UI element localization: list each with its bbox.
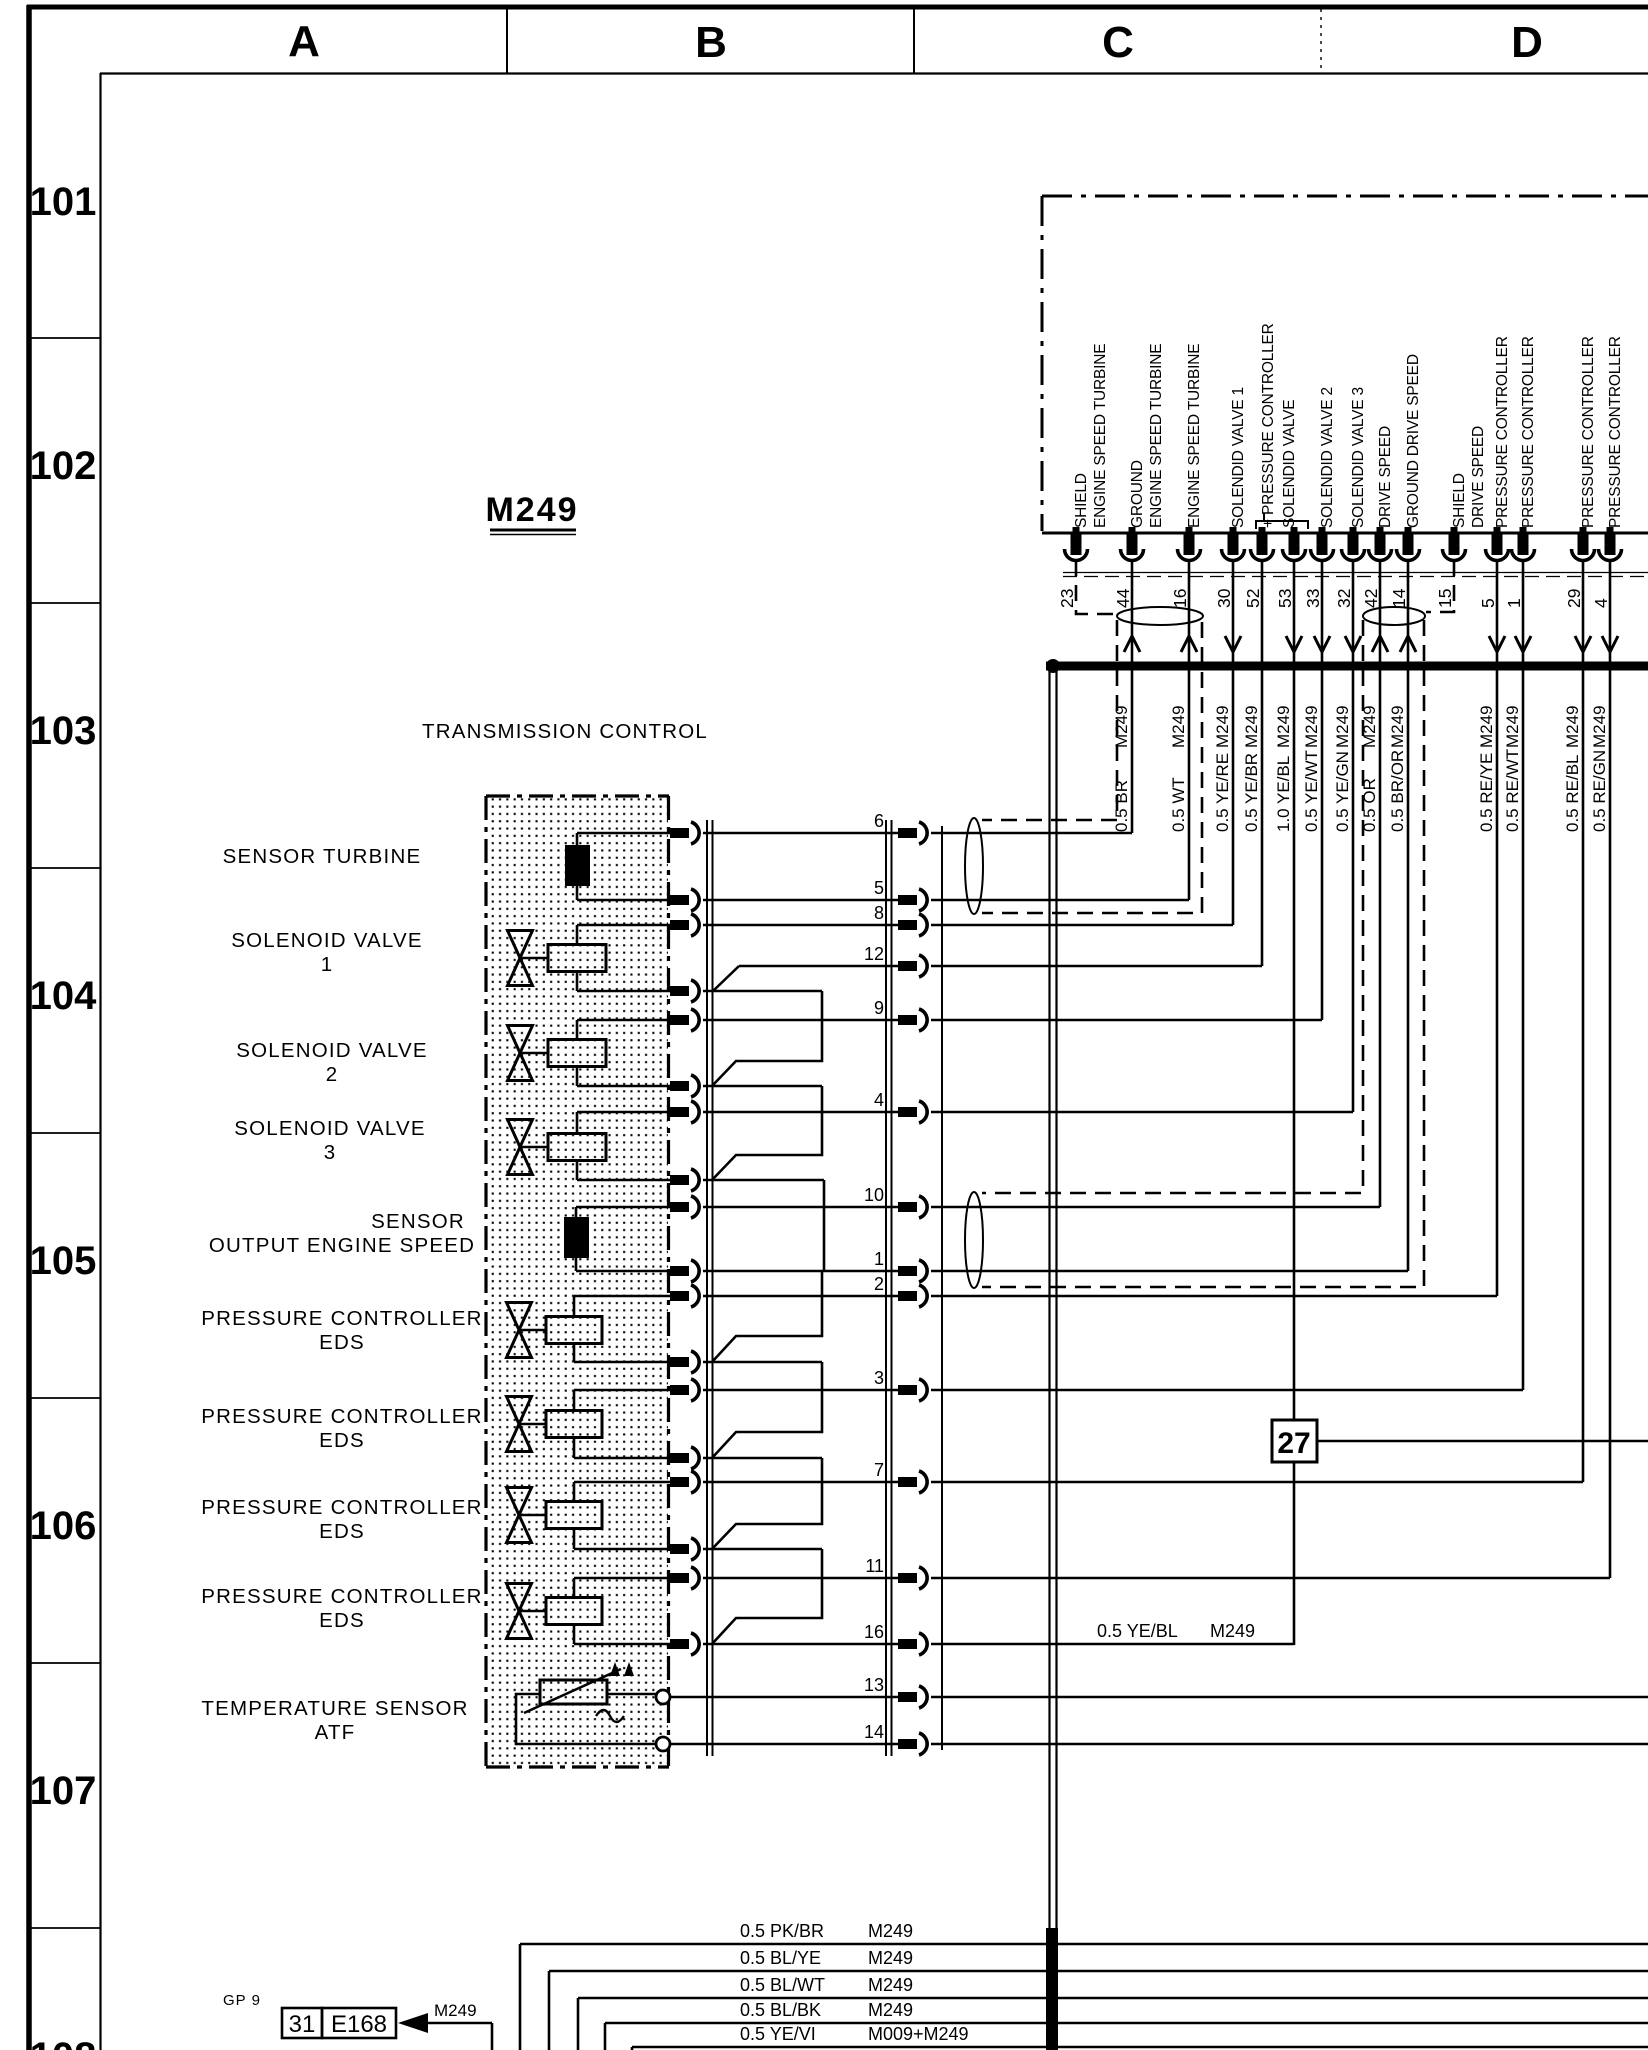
label SOLENOID VALVE 1 <box>231 929 423 976</box>
wire 0.5 RE/GN M249 from ECU pin x=1610 down to row y=1578 <box>1590 560 1618 1578</box>
wire 1.0 YE/BL M249 from ECU pin 53 down through box 27 to row 16 <box>1274 560 1302 1645</box>
pressure controller EDS 2 <box>507 1390 603 1458</box>
ECU pin 52 of M249 <box>1243 527 1274 608</box>
wire row 9 <box>703 1019 1322 1022</box>
svg-text:M249: M249 <box>1242 705 1261 748</box>
temperature sensor ATF (thermistor) <box>516 1662 656 1744</box>
row separator 106/107 <box>31 1662 100 1664</box>
connector X1 pin PC2a <box>670 1379 699 1401</box>
ECU pin 42 of M249 <box>1361 426 1394 608</box>
wire V1b to chain <box>703 990 822 993</box>
svg-text:11: 11 <box>865 1556 884 1576</box>
connector X1 pin ST- <box>670 889 699 911</box>
connector X2 pin 13 <box>864 1675 927 1708</box>
solenoid valve 2 <box>508 1020 607 1086</box>
svg-text:M249: M249 <box>868 1975 913 1995</box>
cable shield ellipse A at ECU side <box>1117 607 1203 625</box>
connector strip line below ECU pins <box>1063 572 1648 574</box>
wire 0.5 RE/YE M249 from ECU pin x=1497 down to row y=1296 <box>1477 560 1505 1296</box>
connector X1 pin PC3a <box>670 1471 699 1493</box>
sensor output engine speed (inductive sensor) <box>564 1207 589 1271</box>
svg-text:4: 4 <box>1591 598 1611 608</box>
wire 0.5 WT M249 from ECU pin x=1189 down to row y=900 <box>1169 560 1197 900</box>
connector X1 pin V3a <box>670 1101 699 1123</box>
svg-text:E168: E168 <box>331 2011 387 2038</box>
wire 0.5 YE/GN M249 from ECU pin x=1353 down to row y=1112 <box>1333 560 1361 1112</box>
row separator 101/102 <box>31 337 100 339</box>
splice box 27 <box>1272 1420 1317 1462</box>
svg-text:5: 5 <box>874 878 884 898</box>
wire 0.5 YE/BR M249 from ECU pin x=1262 down to row y=966 <box>1242 560 1262 966</box>
chain link PC2b-PC3b <box>712 1458 822 1549</box>
label TEMPERATURE SENSOR ATF <box>201 1697 468 1744</box>
svg-text:SOLENDID VALVE 2: SOLENDID VALVE 2 <box>1319 387 1336 528</box>
svg-text:53: 53 <box>1275 589 1295 608</box>
wire component to X1 at y=925 <box>577 924 670 927</box>
bracket joining pins 52 and 53 <box>1256 521 1308 529</box>
connector X2 pin 2 <box>874 1274 927 1307</box>
connector strip X2 double bar <box>886 820 892 1756</box>
svg-text:SHIELD: SHIELD <box>1451 473 1468 528</box>
junction dot bus / trunk <box>1046 659 1060 673</box>
svg-text:GROUND DRIVE SPEED: GROUND DRIVE SPEED <box>1405 354 1422 528</box>
svg-text:1: 1 <box>321 953 334 976</box>
wire component to X1 at y=1180 <box>577 1179 670 1182</box>
svg-text:PRESSURE CONTROLLER: PRESSURE CONTROLLER <box>201 1585 482 1608</box>
label SENSOR TURBINE <box>223 845 422 868</box>
svg-text:M249: M249 <box>1503 705 1522 748</box>
svg-text:D: D <box>1511 18 1543 67</box>
wire row 12 <box>739 965 1262 968</box>
wire 0.5 BL/BK M249 bottom <box>605 2000 1648 2050</box>
wire from box 27 to right edge <box>1317 1440 1648 1443</box>
wire component to X1 at y=900 <box>577 899 670 902</box>
connector strip X1 double bar <box>707 820 713 1756</box>
pressure controller EDS 4 <box>507 1578 603 1644</box>
wire 0.5 OR M249 from ECU pin x=1380 down to row y=1207 <box>1360 560 1388 1207</box>
label 0.5 YE/BL M249 on row 16 <box>1097 1621 1255 1641</box>
svg-text:M249: M249 <box>1169 705 1188 748</box>
chain link V1b-V2b <box>712 991 822 1086</box>
svg-text:DRIVE SPEED: DRIVE SPEED <box>1377 426 1394 528</box>
connector X2 pin 5 <box>874 878 927 911</box>
svg-text:9: 9 <box>874 998 884 1018</box>
label PRESSURE CONTROLLER EDS 3 <box>201 1496 482 1543</box>
svg-text:GROUND: GROUND <box>1129 460 1146 528</box>
wire component to X1 at y=833 <box>577 832 670 835</box>
wire row 10 <box>703 1206 1380 1209</box>
svg-text:1.0 YE/BL: 1.0 YE/BL <box>1274 756 1293 832</box>
control unit M249 box dash-dot top edge <box>1042 195 1648 198</box>
wire 0.5 BR/OR M249 from ECU pin x=1408 down to row y=1271 <box>1388 560 1416 1271</box>
svg-text:SOLENOID VALVE: SOLENOID VALVE <box>236 1039 428 1062</box>
transmission control unit dotted box fill <box>487 797 668 1767</box>
wire row 1 <box>703 1270 1408 1273</box>
svg-text:0.5 YE/GN: 0.5 YE/GN <box>1333 751 1352 832</box>
svg-text:30: 30 <box>1214 588 1234 608</box>
wire 0.5 PK/BR M249 bottom <box>520 1921 1648 2050</box>
svg-text:5: 5 <box>1478 598 1498 608</box>
svg-text:102: 102 <box>30 444 97 488</box>
svg-text:4: 4 <box>874 1090 884 1110</box>
wire PC1b to chain <box>703 1361 822 1364</box>
svg-text:0.5 WT: 0.5 WT <box>1169 777 1188 832</box>
wire V3b to chain <box>703 1179 824 1182</box>
wire component to X1 at y=1020 <box>577 1019 670 1022</box>
svg-text:1: 1 <box>874 1249 884 1269</box>
connector X1 pin V1b <box>670 980 699 1002</box>
ECU pin 33 of M249 <box>1303 387 1336 608</box>
svg-text:TRANSMISSION CONTROL: TRANSMISSION CONTROL <box>422 720 708 743</box>
svg-text:105: 105 <box>30 1239 97 1283</box>
svg-text:12: 12 <box>864 944 884 964</box>
control unit M249 box bottom pin line <box>1042 532 1648 535</box>
solenoid valve 3 <box>508 1112 607 1180</box>
harness trunk M249 thick lower section <box>1046 1928 1058 2050</box>
label SENSOR OUTPUT ENGINE SPEED <box>209 1210 475 1257</box>
svg-text:32: 32 <box>1334 589 1354 608</box>
svg-text:0.5 YE/VI: 0.5 YE/VI <box>740 2024 816 2044</box>
connector X1 pin SO- <box>670 1260 699 1282</box>
svg-text:29: 29 <box>1564 589 1584 608</box>
connector X1 pin SO+ <box>670 1196 699 1218</box>
wire row 7 <box>703 1481 1583 1484</box>
svg-text:EDS: EDS <box>319 1331 365 1354</box>
svg-text:SOLENDID VALVE 3: SOLENDID VALVE 3 <box>1350 387 1367 528</box>
wire PC2b to chain <box>703 1457 822 1460</box>
svg-text:0.5 YE/WT: 0.5 YE/WT <box>1302 750 1321 832</box>
wire component to X1 at y=1207 <box>576 1206 670 1209</box>
wire component to X1 at y=991 <box>577 990 670 993</box>
svg-text:M249: M249 <box>434 2001 477 2020</box>
wire 0.5 RE/WT M249 from ECU pin x=1523 down to row y=1390 <box>1503 560 1531 1390</box>
connector X1 pin V2a <box>670 1009 699 1031</box>
wire row 6 <box>703 832 1132 835</box>
svg-text:M249: M249 <box>868 1921 913 1941</box>
connector X2 pin 4 <box>874 1090 927 1123</box>
ECU pin 30 of M249 <box>1214 387 1247 608</box>
wire component to X1 at y=1362 <box>574 1361 670 1364</box>
wire row 16 <box>703 1643 1294 1646</box>
svg-text:A: A <box>288 17 320 66</box>
wire 0.5 YE/WT M249 from ECU pin x=1322 down to row y=1020 <box>1302 560 1330 1020</box>
svg-text:+ PRESSURE CONTROLLER: + PRESSURE CONTROLLER <box>1260 323 1277 528</box>
svg-text:TEMPERATURE SENSOR: TEMPERATURE SENSOR <box>201 1697 468 1720</box>
svg-text:52: 52 <box>1243 589 1263 608</box>
wire component to X1 at y=1458 <box>574 1457 670 1460</box>
wire 0.5 RE/BL M249 from ECU pin x=1583 down to row y=1482 <box>1563 560 1591 1482</box>
svg-text:101: 101 <box>30 180 97 224</box>
svg-text:ENGINE SPEED TURBINE: ENGINE SPEED TURBINE <box>1092 344 1109 528</box>
wire component to X1 at y=1390 <box>574 1389 670 1392</box>
svg-text:27: 27 <box>1277 1427 1310 1460</box>
cable shield ellipse B at ECU side <box>1363 607 1425 625</box>
svg-text:M249: M249 <box>1477 705 1496 748</box>
ground point box 31 E168 <box>282 2008 396 2038</box>
shield rail B right (dashed) <box>982 620 1424 1287</box>
wire row 4 <box>703 1111 1353 1114</box>
svg-text:0.5 YE/BR: 0.5 YE/BR <box>1242 753 1261 832</box>
svg-text:103: 103 <box>30 709 97 753</box>
ECU pin 16 of M249 <box>1170 344 1203 608</box>
wire component to X1 at y=1271 <box>576 1270 670 1273</box>
transmission control unit box dash-dot border <box>486 796 669 1768</box>
ECU pin 32 of M249 <box>1334 387 1367 608</box>
wire 0.5 YE/VI M009+M249 bottom <box>632 2024 1648 2050</box>
connector X2 pin 1 <box>874 1249 927 1282</box>
svg-text:ENGINE SPEED TURBINE: ENGINE SPEED TURBINE <box>1148 344 1165 528</box>
column separator C/D <box>1320 9 1322 73</box>
svg-text:M249: M249 <box>1213 705 1232 748</box>
connector X1 pin PC1b <box>670 1351 699 1373</box>
wire 0.5 YE/RE M249 from ECU pin x=1233 down to row y=925 <box>1213 560 1241 925</box>
svg-text:42: 42 <box>1361 589 1381 608</box>
solenoid valve 1 <box>508 925 607 991</box>
sensor turbine (inductive sensor) <box>565 833 590 900</box>
chain link V2b-V3b <box>712 1086 822 1180</box>
connector X1 pin PC2b <box>670 1447 699 1469</box>
shield rail A left (dashed) <box>982 620 1117 820</box>
svg-text:SHIELD: SHIELD <box>1073 473 1090 528</box>
wire 0.5 BL/WT M249 bottom <box>578 1975 1648 2050</box>
svg-text:14: 14 <box>1389 588 1409 608</box>
connector strip X2 right bar <box>941 826 943 1750</box>
connector X2 pin 3 <box>874 1368 927 1401</box>
wire row 11 <box>703 1577 1610 1580</box>
svg-text:PRESSURE CONTROLLER: PRESSURE CONTROLLER <box>201 1405 482 1428</box>
wire row 2 <box>703 1295 1497 1298</box>
cable shield ellipse B at component side <box>965 1192 983 1288</box>
svg-text:0.5 BR: 0.5 BR <box>1112 780 1131 832</box>
title M249 <box>485 491 578 535</box>
svg-text:M249: M249 <box>1590 705 1609 748</box>
wire component to X1 at y=1112 <box>577 1111 670 1114</box>
svg-text:OUTPUT ENGINE SPEED: OUTPUT ENGINE SPEED <box>209 1234 475 1257</box>
svg-text:1: 1 <box>1504 598 1524 608</box>
wire PC3b to chain <box>703 1548 822 1551</box>
svg-text:PRESSURE CONTROLLER: PRESSURE CONTROLLER <box>1520 336 1537 528</box>
ECU pin 44 of M249 <box>1113 344 1165 608</box>
svg-text:M249: M249 <box>1302 705 1321 748</box>
wire component to X1 at y=1549 <box>574 1548 670 1551</box>
svg-text:44: 44 <box>1113 588 1133 608</box>
label PRESSURE CONTROLLER EDS 4 <box>201 1585 482 1632</box>
svg-text:0.5 BL/WT: 0.5 BL/WT <box>740 1975 825 1995</box>
svg-text:M249: M249 <box>485 491 578 529</box>
diagonal V1b to row 12 <box>713 966 739 991</box>
harness trunk M249 double line <box>1050 666 1057 1930</box>
svg-text:PRESSURE CONTROLLER: PRESSURE CONTROLLER <box>1580 336 1597 528</box>
cable shield ellipse A at component side <box>965 818 983 914</box>
connector X1 pin V2b <box>670 1075 699 1097</box>
svg-text:0.5 RE/YE: 0.5 RE/YE <box>1477 753 1496 832</box>
svg-text:M249: M249 <box>1274 705 1293 748</box>
connector X1 pin V1a <box>670 914 699 936</box>
connector X1 pin V3b <box>670 1169 699 1191</box>
ECU pin 14 of M249 <box>1389 354 1422 608</box>
wire component to X1 at y=1644 <box>574 1643 670 1646</box>
wire row 14 <box>670 1743 1648 1746</box>
label SOLENOID VALVE 2 <box>236 1039 428 1086</box>
connector X1 pin ST+ <box>670 822 699 844</box>
svg-text:DRIVE SPEED: DRIVE SPEED <box>1470 426 1487 528</box>
wire row 5 <box>703 899 1189 902</box>
column separator A/B <box>506 9 508 73</box>
row separator 107/108 <box>31 1927 100 1929</box>
svg-text:SENSOR TURBINE: SENSOR TURBINE <box>223 845 422 868</box>
connector X2 pin 6 <box>874 811 927 844</box>
control unit M249 box dash-dot left edge <box>1041 196 1044 531</box>
chain link row1-PC1b <box>712 1271 822 1362</box>
temperature sensor terminal circle 13 <box>656 1690 670 1704</box>
wire component to X1 at y=1578 <box>574 1577 670 1580</box>
svg-text:108: 108 <box>30 2035 97 2050</box>
svg-text:106: 106 <box>30 1504 97 1548</box>
connector X2 pin 16 <box>864 1622 927 1655</box>
svg-text:0.5 RE/GN: 0.5 RE/GN <box>1590 750 1609 832</box>
connector X2 pin 7 <box>874 1460 927 1493</box>
connector X1 pin PC4b <box>670 1633 699 1655</box>
svg-text:8: 8 <box>874 903 884 923</box>
shield rail B left (dashed) <box>982 620 1363 1193</box>
svg-text:0.5 YE/RE: 0.5 YE/RE <box>1213 753 1232 832</box>
ECU pin 23 of M249 <box>1057 344 1109 608</box>
row separator 103/104 <box>31 867 100 869</box>
wire M249 to ground point E168 with arrow <box>398 2001 492 2050</box>
svg-text:PRESSURE CONTROLLER: PRESSURE CONTROLLER <box>1607 336 1624 528</box>
ECU pin 1 of M249 <box>1504 336 1537 608</box>
ECU pin 53 of M249 <box>1275 527 1306 608</box>
shield wire ECU pin 15 dash elbow <box>1426 560 1454 612</box>
svg-text:33: 33 <box>1303 589 1323 608</box>
svg-text:M249: M249 <box>1210 1621 1255 1641</box>
temperature sensor terminal circle 14 <box>656 1737 670 1751</box>
svg-text:0.5 BR/OR: 0.5 BR/OR <box>1388 750 1407 832</box>
connector X2 pin 10 <box>864 1185 927 1218</box>
svg-text:16: 16 <box>864 1622 884 1642</box>
svg-text:0.5 BL/YE: 0.5 BL/YE <box>740 1948 821 1968</box>
wire component to X1 at y=1086 <box>577 1085 670 1088</box>
svg-text:SOLENOID VALVE: SOLENOID VALVE <box>231 929 423 952</box>
shield wire ECU pin 23 dash elbow <box>1076 560 1115 614</box>
svg-text:C: C <box>1102 18 1134 67</box>
svg-text:GP 9: GP 9 <box>223 1992 261 2009</box>
wire row 8 <box>703 924 1233 927</box>
svg-text:10: 10 <box>864 1185 884 1205</box>
svg-text:EDS: EDS <box>319 1609 365 1632</box>
wire 0.5 BR M249 from ECU pin x=1132 down to row y=833 <box>1112 560 1140 833</box>
svg-text:SOLENOID VALVE: SOLENOID VALVE <box>234 1117 426 1140</box>
svg-text:M249: M249 <box>868 1948 913 1968</box>
svg-text:2: 2 <box>874 1274 884 1294</box>
connector X2 pin 11 <box>865 1556 927 1589</box>
svg-text:0.5 RE/BL: 0.5 RE/BL <box>1563 755 1582 833</box>
wire component to X1 at y=1296 <box>574 1295 670 1298</box>
row separator 104/105 <box>31 1132 100 1134</box>
pressure controller EDS 3 <box>507 1482 603 1549</box>
shield rail A right (dashed) <box>982 622 1202 913</box>
svg-text:16: 16 <box>1170 589 1190 608</box>
svg-text:2: 2 <box>326 1063 339 1086</box>
column separator B/C <box>913 9 915 73</box>
svg-text:M249: M249 <box>1112 705 1131 748</box>
pressure controller EDS 1 <box>507 1296 603 1362</box>
connector X2 pin 9 <box>874 998 927 1031</box>
svg-text:M249: M249 <box>1333 705 1352 748</box>
chain link PC3b-PC4b <box>712 1549 822 1644</box>
svg-text:PRESSURE CONTROLLER: PRESSURE CONTROLLER <box>201 1307 482 1330</box>
svg-text:PRESSURE CONTROLLER: PRESSURE CONTROLLER <box>201 1496 482 1519</box>
ECU pin 4 of M249 <box>1591 336 1624 608</box>
svg-text:M249: M249 <box>868 2000 913 2020</box>
svg-text:ENGINE SPEED TURBINE: ENGINE SPEED TURBINE <box>1186 344 1203 528</box>
svg-text:0.5 RE/WT: 0.5 RE/WT <box>1503 749 1522 832</box>
svg-text:15: 15 <box>1435 589 1455 608</box>
connector X2 pin 8 <box>874 903 927 936</box>
main bus thick line <box>1046 662 1648 671</box>
ECU pin 29 of M249 <box>1564 336 1597 608</box>
chain link PC1b-PC2b <box>712 1362 822 1458</box>
chain link V3b to row 1 <box>823 1180 826 1271</box>
svg-text:0.5 YE/BL: 0.5 YE/BL <box>1097 1621 1178 1641</box>
wire V2b to chain <box>703 1085 822 1088</box>
svg-text:SENSOR: SENSOR <box>371 1210 465 1233</box>
svg-text:EDS: EDS <box>319 1520 365 1543</box>
wire 0.5 BL/YE M249 bottom <box>549 1948 1648 2050</box>
svg-text:3: 3 <box>874 1368 884 1388</box>
svg-text:SOLENDID VALVE 1: SOLENDID VALVE 1 <box>1230 387 1247 528</box>
svg-text:SOLENDID VALVE: SOLENDID VALVE <box>1281 400 1298 528</box>
label PRESSURE CONTROLLER EDS 2 <box>201 1405 482 1452</box>
wire row 3 <box>703 1389 1523 1392</box>
row separator 105/106 <box>31 1397 100 1399</box>
svg-text:B: B <box>695 18 727 67</box>
label PRESSURE CONTROLLER EDS 1 <box>201 1307 482 1354</box>
svg-text:14: 14 <box>864 1722 884 1742</box>
connector X2 pin 14 <box>864 1722 927 1755</box>
ECU pin 15 of M249 <box>1435 426 1487 608</box>
ECU pin 5 of M249 <box>1478 336 1511 608</box>
svg-text:ATF: ATF <box>315 1721 356 1744</box>
connector X2 pin 12 <box>864 944 927 977</box>
label SOLENOID VALVE 3 <box>234 1117 426 1164</box>
svg-text:PRESSURE CONTROLLER: PRESSURE CONTROLLER <box>1494 336 1511 528</box>
connector X1 pin PC4a <box>670 1567 699 1589</box>
svg-text:6: 6 <box>874 811 884 831</box>
svg-text:0.5 PK/BR: 0.5 PK/BR <box>740 1921 824 1941</box>
svg-text:0.5 BL/BK: 0.5 BL/BK <box>740 2000 821 2020</box>
wire row 13 <box>670 1696 1648 1699</box>
svg-text:13: 13 <box>864 1675 884 1695</box>
svg-text:3: 3 <box>324 1141 337 1164</box>
svg-text:M249: M249 <box>1563 705 1582 748</box>
svg-text:M249: M249 <box>1388 705 1407 748</box>
label + PRESSURE CONTROLLER / SOLENDID VALVE for pins 52,53 <box>1260 323 1298 528</box>
svg-text:104: 104 <box>30 974 97 1018</box>
connector X1 pin PC1a <box>670 1285 699 1307</box>
svg-text:107: 107 <box>30 1769 97 1813</box>
svg-text:23: 23 <box>1057 589 1077 608</box>
svg-text:7: 7 <box>874 1460 884 1480</box>
svg-text:EDS: EDS <box>319 1429 365 1452</box>
svg-text:31: 31 <box>289 2011 316 2038</box>
row separator 102/103 <box>31 602 100 604</box>
wire component to X1 at y=1482 <box>574 1481 670 1484</box>
svg-text:M009+M249: M009+M249 <box>868 2024 969 2044</box>
connector X1 pin PC3b <box>670 1538 699 1560</box>
